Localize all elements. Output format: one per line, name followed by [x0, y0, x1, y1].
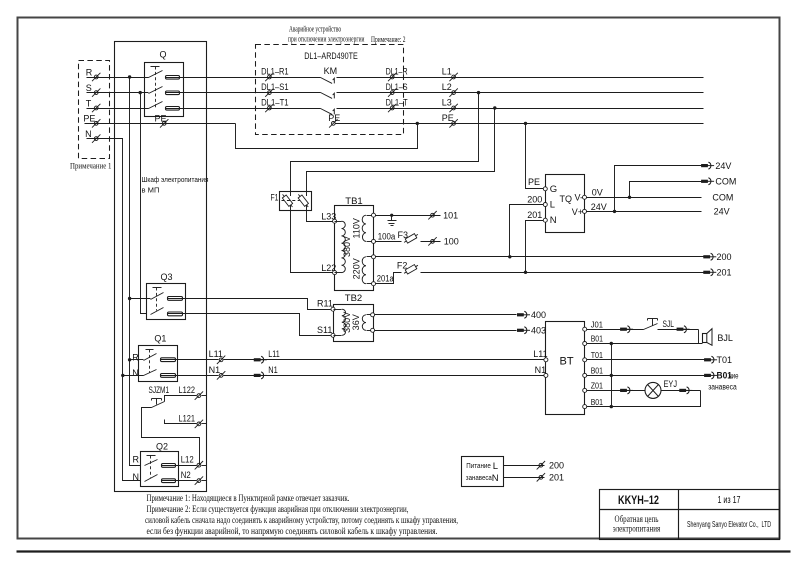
node B01 bus top	[610, 342, 613, 345]
svg-text:F1: F1	[271, 193, 279, 203]
wire 201 line	[421, 272, 704, 274]
wire F1 right fuse to L33	[307, 206, 333, 222]
wire T01	[587, 359, 705, 361]
wire 24V line	[587, 211, 702, 213]
node PE branch	[524, 122, 527, 125]
svg-text:B01: B01	[591, 366, 604, 376]
wire Q3 pole1 to TB2 R11	[168, 299, 331, 310]
wire S to DL1-S	[337, 92, 704, 94]
ground	[388, 214, 397, 226]
connector L1	[442, 66, 458, 81]
wire 403	[375, 330, 517, 332]
connector 200 curtain	[537, 460, 564, 470]
wire Z01	[587, 390, 646, 392]
curtain power box	[462, 457, 504, 487]
svg-text:N1: N1	[209, 365, 221, 375]
svg-text:V-: V-	[574, 193, 583, 203]
arrow B01	[704, 371, 732, 381]
svg-text:Q1: Q1	[154, 334, 166, 344]
svg-text:L2: L2	[442, 82, 452, 92]
svg-text:DL1–ARD490TE: DL1–ARD490TE	[304, 51, 358, 62]
wire PE	[85, 123, 236, 125]
wire SJL to arrow	[658, 329, 699, 331]
svg-text:24V: 24V	[591, 202, 607, 212]
svg-text:N1: N1	[268, 365, 278, 375]
fuse block F1	[271, 192, 312, 211]
svg-text:Примечание: 2: Примечание: 2	[371, 35, 406, 44]
wire Q1 N1 out	[161, 375, 219, 377]
wire Q2 L12 out	[162, 465, 197, 467]
lamp EYJ	[645, 379, 677, 398]
arrow 403	[517, 326, 546, 336]
svg-text:V+: V+	[572, 207, 583, 217]
svg-text:400: 400	[531, 310, 546, 320]
svg-text:403: 403	[531, 326, 546, 336]
wire 200 line	[376, 256, 704, 258]
svg-text:N: N	[492, 473, 499, 484]
wire TQ L input	[510, 205, 544, 257]
TB2 terminal R11	[317, 299, 335, 312]
BT pin L11	[533, 349, 548, 362]
emergency device dashed box DL1	[256, 45, 404, 135]
wire EYJ return	[587, 391, 701, 407]
svg-text:занавеса: занавеса	[466, 473, 493, 482]
svg-text:COM: COM	[712, 192, 733, 202]
svg-text:DL1–R1: DL1–R1	[261, 66, 289, 76]
wire S out of Q	[166, 92, 321, 94]
N bus to Q2	[123, 376, 141, 481]
svg-text:SJZM1: SJZM1	[149, 385, 170, 395]
svg-text:L121: L121	[179, 413, 196, 423]
svg-text:201: 201	[527, 210, 542, 220]
svg-text:T: T	[86, 98, 92, 108]
BT pin B01a	[583, 334, 604, 346]
terminal PE	[83, 114, 100, 128]
wire B01 to speaker	[587, 343, 703, 345]
BT pin B01b	[583, 366, 604, 378]
svg-text:Питание: Питание	[466, 461, 491, 470]
svg-text:1 из 17: 1 из 17	[718, 495, 741, 506]
wire down to speaker	[698, 330, 700, 344]
svg-text:BT: BT	[560, 356, 574, 368]
BT pin N1	[535, 365, 548, 378]
wire L12 to edge	[202, 465, 207, 467]
svg-text:Шкаф электропитания: Шкаф электропитания	[142, 175, 209, 184]
arrow EYJ out	[679, 387, 692, 394]
wire R out of Q	[166, 77, 321, 79]
connector DL1-T1	[261, 97, 289, 112]
terminal S	[86, 83, 101, 97]
switch SJL	[644, 319, 675, 330]
wire R to DL1-R	[337, 77, 704, 79]
arrow COM	[701, 177, 736, 187]
svg-text:24V: 24V	[715, 161, 731, 171]
connector DL1-R	[386, 66, 408, 81]
connector N1	[209, 365, 226, 380]
node B01 bus mid	[610, 374, 613, 377]
wire L11 to arrow	[224, 359, 546, 361]
svg-text:DL1–S1: DL1–S1	[261, 82, 289, 92]
svg-text:R: R	[86, 67, 93, 77]
node COM branch	[628, 196, 631, 199]
wire Q3 pole1 input	[130, 298, 151, 300]
wire PE branch to TQ G	[526, 124, 544, 189]
svg-text:PE: PE	[442, 113, 454, 123]
wire PE inside DL1 to right	[336, 123, 704, 125]
wire 0V COM line	[587, 197, 702, 199]
wire branch to COM arrow	[630, 182, 702, 198]
customer terminal dashed box	[79, 61, 110, 159]
node R-top	[128, 75, 131, 78]
wire S phase	[87, 92, 149, 94]
PE connector in cabinet	[155, 114, 169, 128]
svg-text:201a: 201a	[377, 273, 394, 283]
connector PE in DL1	[328, 113, 340, 128]
title block	[600, 490, 780, 540]
TB1 secondary coil 110V	[351, 213, 375, 243]
wire curtain N	[504, 477, 545, 479]
wire N2 to edge	[202, 480, 207, 482]
svg-text:G: G	[550, 184, 557, 195]
svg-text:Shenyang Sanyo Elevator Co.,: Shenyang Sanyo Elevator Co., LTD	[687, 519, 771, 529]
svg-text:110V: 110V	[351, 218, 361, 238]
svg-text:KKYH–12: KKYH–12	[618, 493, 659, 507]
wire L3 branch to F1	[307, 109, 495, 197]
svg-text:B01: B01	[591, 334, 604, 344]
arrow 400	[517, 310, 546, 320]
arrow 201	[703, 268, 731, 278]
connector DL1-S	[386, 82, 408, 97]
svg-text:PE: PE	[155, 114, 167, 124]
connector DL1-T	[386, 97, 408, 112]
svg-text:Q: Q	[160, 50, 167, 60]
wire Q1 N input	[123, 375, 144, 377]
terminal N	[85, 129, 100, 143]
svg-text:B01: B01	[591, 397, 604, 407]
svg-text:L11: L11	[268, 349, 280, 359]
wire Q3 pole2 to TB2 S11	[168, 314, 331, 336]
svg-text:KM: KM	[324, 66, 338, 76]
arrow 24V	[701, 161, 731, 171]
breaker Q2	[141, 442, 179, 487]
connector L11	[209, 349, 226, 364]
node R-Q3	[128, 297, 131, 300]
node N-Q1	[121, 374, 124, 377]
connector N2	[181, 470, 203, 485]
svg-text:L: L	[550, 200, 555, 211]
wire 400	[375, 314, 517, 316]
svg-text:201: 201	[717, 268, 732, 278]
svg-text:101: 101	[443, 210, 458, 220]
svg-text:S11: S11	[317, 325, 332, 335]
node 24V branch	[613, 210, 616, 213]
node 201-TQ	[524, 271, 527, 274]
svg-text:L: L	[493, 461, 498, 472]
svg-text:24V: 24V	[714, 207, 730, 217]
connector 201 curtain	[537, 473, 564, 483]
svg-text:N: N	[133, 472, 140, 482]
node B01 bus bottom	[610, 405, 613, 408]
svg-text:DL1–T: DL1–T	[386, 97, 408, 107]
svg-text:Примечание 2: Если существуетс: Примечание 2: Если существуется функция …	[147, 504, 409, 515]
arrow L11	[254, 349, 280, 363]
TB1 terminal L22	[321, 263, 336, 275]
BT pin Z01	[583, 381, 604, 393]
wire L121 to edge	[202, 423, 207, 425]
wire SJZM1 right to L122	[165, 396, 197, 402]
svg-text:R11: R11	[317, 299, 333, 309]
TB2 secondary coil 36V	[351, 313, 375, 333]
wire B01 out	[587, 375, 705, 377]
fuse F3	[398, 230, 420, 245]
wire L2 branch to F1	[291, 93, 479, 197]
node S-top	[139, 91, 142, 94]
wire SJZM1 left down to L12	[142, 408, 200, 466]
fuse F2	[397, 261, 419, 276]
TQ pin V+	[572, 207, 587, 217]
svg-text:Аварийное устройство: Аварийное устройство	[289, 24, 341, 33]
svg-text:200: 200	[549, 460, 564, 470]
wire lamp to corner	[662, 390, 701, 392]
wire Q2 N2 out	[162, 480, 197, 482]
svg-text:занавеса: занавеса	[708, 382, 737, 391]
notes	[145, 493, 458, 537]
TQ pin N	[527, 210, 557, 226]
terminal T	[86, 98, 101, 112]
svg-text:200: 200	[717, 252, 732, 262]
node L3 branch	[493, 106, 496, 109]
terminal R	[86, 67, 101, 81]
svg-text:36V: 36V	[351, 314, 361, 330]
svg-text:100: 100	[444, 237, 459, 247]
wire F1 left fuse to L22	[291, 206, 333, 273]
svg-text:201: 201	[549, 473, 564, 483]
svg-text:при отключении электроэнергии: при отключении электроэнергии	[288, 35, 365, 44]
wire T phase	[87, 108, 149, 110]
svg-text:R: R	[133, 455, 140, 465]
svg-text:200: 200	[527, 195, 542, 205]
wire N	[87, 139, 123, 376]
BT pin J01	[583, 319, 604, 331]
node R-Q1	[128, 358, 131, 361]
wire Q1 R input	[130, 359, 144, 361]
BT pin T01	[583, 350, 604, 362]
connector L122	[179, 385, 204, 400]
svg-text:220V: 220V	[351, 258, 361, 279]
connector DL1-S1	[261, 82, 289, 97]
wire curtain L	[504, 465, 545, 467]
svg-text:N2: N2	[181, 470, 191, 480]
power supply TQ	[546, 175, 585, 233]
svg-text:L122: L122	[179, 385, 196, 395]
svg-text:L1: L1	[442, 66, 452, 76]
svg-text:EYJ: EYJ	[664, 379, 678, 389]
transformer TB1	[335, 196, 374, 291]
svg-text:TB2: TB2	[345, 293, 362, 304]
connector PE right	[442, 113, 458, 128]
svg-text:B01: B01	[717, 371, 733, 381]
connector L121	[179, 413, 204, 428]
svg-text:SJL: SJL	[663, 319, 675, 329]
wire T to DL1-T	[337, 108, 704, 110]
wire F3 to 100	[421, 241, 441, 243]
connector L2	[442, 82, 458, 97]
svg-text:TQ: TQ	[560, 194, 573, 204]
svg-text:N: N	[550, 215, 557, 226]
TB1 secondary coil 220V	[351, 255, 375, 286]
svg-text:DL1–S: DL1–S	[386, 82, 408, 92]
svg-text:Примечание 1: Примечание 1	[70, 160, 112, 170]
TB2 primary coil 380V	[334, 309, 353, 335]
wire branch to 24V arrow	[615, 166, 702, 212]
svg-text:N1: N1	[535, 365, 547, 375]
wire T out of Q	[166, 108, 321, 110]
svg-text:N: N	[85, 129, 92, 139]
svg-text:T01: T01	[717, 355, 733, 365]
svg-text:Q3: Q3	[161, 272, 173, 282]
svg-text:R: R	[132, 353, 139, 363]
svg-text:DL1–R: DL1–R	[386, 66, 408, 76]
wire 101	[376, 215, 441, 217]
connector DL1-R1	[261, 66, 289, 81]
transformer TB2	[334, 293, 374, 342]
TB1 terminal L33	[321, 212, 336, 224]
TQ pin V-	[574, 193, 586, 203]
S bus	[141, 93, 147, 314]
breaker Q3	[147, 272, 186, 320]
speaker BJL	[703, 329, 733, 346]
node L2 branch	[477, 91, 480, 94]
contactor KM	[321, 66, 338, 115]
arrow N1	[254, 365, 278, 379]
B01 bus vertical	[611, 344, 613, 407]
BT pin B01c	[583, 397, 604, 409]
connector 100	[428, 237, 458, 247]
cabinet box	[115, 42, 207, 492]
wire Q1 L11 out	[161, 359, 219, 361]
svg-text:BJL: BJL	[717, 333, 733, 343]
connector L3	[442, 97, 458, 112]
svg-text:силовой кабель сначала надо со: силовой кабель сначала надо соединять к …	[145, 515, 458, 526]
svg-text:PE: PE	[528, 177, 540, 187]
svg-text:если без функции аварийной, то: если без функции аварийной, то напрямую …	[147, 526, 438, 537]
arrow T01	[704, 355, 732, 365]
svg-text:DL1–T1: DL1–T1	[261, 97, 289, 107]
TQ pin G	[528, 177, 557, 195]
svg-text:0V: 0V	[592, 187, 603, 197]
arrow J01	[620, 326, 633, 333]
block BT	[546, 322, 585, 415]
TB2 terminal S11	[317, 325, 335, 337]
svg-text:N: N	[132, 368, 139, 378]
switch SJZM1	[149, 385, 170, 408]
node 200-TQ	[508, 255, 511, 258]
wire N1 to arrow	[224, 375, 546, 377]
svg-text:J01: J01	[591, 319, 604, 329]
wire L121	[165, 420, 197, 424]
svg-text:PE: PE	[83, 114, 95, 124]
arrow Z01	[620, 387, 633, 394]
TQ pin L	[527, 195, 555, 211]
arrow 200	[703, 252, 731, 262]
wire 201a tap	[376, 273, 402, 284]
arrow SJL out	[677, 326, 690, 333]
svg-text:T01: T01	[591, 350, 604, 360]
TB1 primary coil 380V	[335, 221, 353, 272]
svg-text:Обратная цепь: Обратная цепь	[615, 514, 659, 525]
svg-text:электропитания: электропитания	[613, 524, 661, 534]
breaker Q1	[139, 334, 178, 382]
node PE detour	[416, 122, 419, 125]
svg-text:Примечание 1: Находящиеся в Пу: Примечание 1: Находящиеся в Пунктирной р…	[147, 493, 350, 504]
svg-text:COM: COM	[715, 177, 736, 187]
svg-text:Z01: Z01	[591, 381, 604, 391]
wire R phase	[87, 77, 149, 79]
wire TQ N input	[526, 221, 544, 273]
wire 100a tap	[376, 241, 402, 243]
svg-text:L12: L12	[181, 455, 194, 465]
svg-text:в МП: в МП	[142, 186, 160, 195]
svg-text:100a: 100a	[378, 232, 396, 242]
bottom page line	[17, 550, 791, 552]
grey text curtain	[708, 371, 739, 391]
svg-text:Q2: Q2	[156, 442, 168, 452]
wire J01	[587, 329, 644, 331]
R bus	[130, 78, 141, 466]
svg-text:L3: L3	[442, 97, 452, 107]
PE detour under DL1 box	[236, 124, 418, 149]
wire L122 to edge	[202, 395, 207, 397]
connector 101	[428, 210, 458, 220]
connector L12	[181, 455, 203, 470]
breaker Q	[145, 50, 184, 117]
svg-text:S: S	[86, 83, 92, 93]
